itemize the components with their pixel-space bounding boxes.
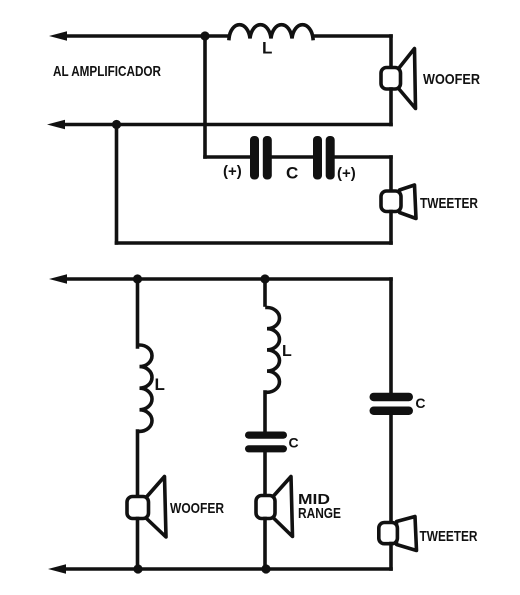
wire L to right corner — [313, 34, 391, 38]
wire to capacitor C left — [205, 155, 250, 159]
arrow upper-left — [49, 31, 67, 41]
arrow bottom-left — [48, 564, 66, 574]
speaker tweeter (top circuit) — [381, 185, 416, 219]
capacitor C (mid branch) — [245, 432, 287, 453]
speaker mid range — [256, 477, 293, 537]
svg-text:RANGE: RANGE — [298, 505, 341, 522]
svg-text:(+): (+) — [223, 163, 242, 180]
node mid branch bottom — [261, 564, 270, 573]
node junction top line / L branch — [200, 31, 209, 40]
svg-text:TWEETER: TWEETER — [420, 195, 478, 212]
wire mid branch upper — [263, 279, 267, 305]
svg-text:L: L — [155, 375, 165, 394]
svg-text:(+): (+) — [337, 165, 356, 182]
node woofer branch top — [133, 274, 142, 283]
wire tweeter down to bottom — [389, 212, 393, 244]
wire right side down to woofer — [389, 36, 393, 70]
speaker woofer (top circuit) — [381, 49, 416, 109]
svg-text:C: C — [289, 435, 299, 451]
wire right side down to capacitor (tweeter branch) — [389, 279, 393, 393]
wire tweeter to bottom line — [389, 544, 393, 570]
arrow lower-left — [47, 120, 65, 130]
capacitor C right pair (top circuit) — [313, 136, 335, 180]
svg-text:L: L — [282, 343, 292, 360]
svg-text:WOOFER: WOOFER — [170, 500, 224, 517]
wire woofer to bottom line — [136, 519, 140, 570]
speaker tweeter (bottom circuit) — [379, 517, 417, 551]
wire between capacitors — [270, 155, 313, 159]
capacitor C left pair (top circuit) — [250, 136, 272, 180]
wire capacitor to right corner — [333, 155, 391, 159]
wire capacitor to mid speaker — [263, 451, 267, 497]
wire left side up to node — [115, 125, 119, 244]
inductor L (top circuit) — [229, 25, 313, 39]
wire woofer branch upper — [136, 279, 140, 347]
wire inductor to capacitor (mid branch) — [263, 392, 267, 434]
capacitor C (tweeter branch) — [370, 393, 414, 415]
wire right side down to tweeter — [389, 157, 393, 193]
wire second line (al amplificador lower) — [60, 123, 391, 127]
arrow top-left (bottom circuit) — [49, 274, 67, 284]
wire inductor to woofer — [136, 431, 140, 498]
speaker woofer (bottom circuit) — [127, 477, 166, 538]
node woofer branch bottom — [133, 564, 142, 573]
wire bottom of top circuit — [117, 241, 392, 245]
inductor L (woofer branch) — [140, 345, 153, 431]
node junction second line — [112, 120, 121, 129]
inductor L (mid branch) — [267, 308, 280, 393]
svg-text:C: C — [415, 395, 425, 411]
wire mid speaker to bottom line — [263, 519, 267, 570]
svg-text:L: L — [262, 39, 272, 58]
wire from top node down to capacitors — [203, 36, 207, 157]
svg-text:AL AMPLIFICADOR: AL AMPLIFICADOR — [53, 63, 161, 80]
wire bottom line (bottom circuit) — [61, 567, 391, 571]
wire woofer down to second line — [389, 89, 393, 125]
node mid branch top — [260, 274, 269, 283]
wire top line (al amplificador upper) — [62, 34, 229, 38]
svg-text:TWEETER: TWEETER — [420, 528, 478, 545]
wire top line (bottom circuit) — [62, 277, 391, 281]
svg-text:C: C — [286, 164, 298, 183]
wire capacitor to tweeter — [389, 414, 393, 525]
svg-text:WOOFER: WOOFER — [423, 71, 480, 88]
